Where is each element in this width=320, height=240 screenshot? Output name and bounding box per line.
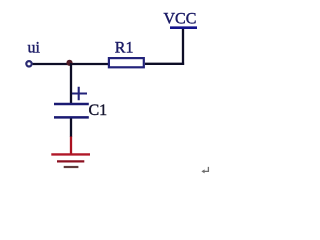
ground bar 2	[57, 160, 84, 162]
svg-text:R1: R1	[115, 40, 134, 57]
node junction dot	[66, 60, 72, 66]
ground bar 1	[51, 153, 90, 155]
svg-text:VCC: VCC	[164, 11, 197, 28]
polarity plus sign of C1	[72, 87, 87, 100]
wire capacitor to ground red part	[70, 137, 72, 155]
ground bar 3	[64, 166, 79, 168]
wire resistor to corner	[145, 63, 184, 65]
wire capacitor to ground black part	[70, 119, 72, 138]
svg-text:ui: ui	[28, 40, 41, 57]
resistor R1	[109, 58, 144, 67]
svg-text:C1: C1	[89, 102, 108, 119]
paragraph return mark	[204, 167, 209, 172]
wire corner up to VCC	[182, 28, 184, 65]
power bar VCC	[170, 26, 197, 29]
capacitor C1 bottom plate	[54, 116, 89, 119]
wire junction to capacitor	[70, 63, 72, 104]
wire input to junction	[33, 63, 108, 65]
terminal ui input	[26, 61, 31, 66]
capacitor C1 top plate	[54, 103, 89, 106]
